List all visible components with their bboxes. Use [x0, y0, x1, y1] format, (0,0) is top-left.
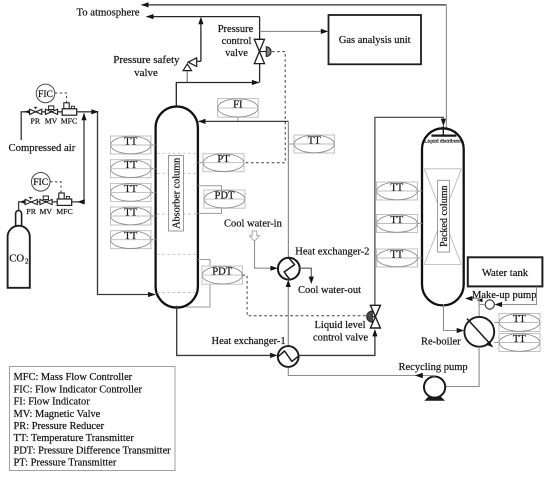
instrument TT2 (absorber) — [111, 160, 156, 178]
svg-text:PT: Pressure Transmitter: PT: Pressure Transmitter — [14, 458, 117, 469]
svg-text:Liquid level: Liquid level — [314, 320, 365, 331]
gas analysis unit box — [329, 15, 422, 64]
instrument TT1 (packed column) — [377, 182, 423, 200]
svg-text:MFC: MFC — [61, 116, 77, 125]
wire: lean amine riser (HX-2 to absorber feed line) — [287, 121, 289, 258]
instrument PT — [198, 154, 244, 172]
wire: CO2 feed line — [19, 113, 87, 211]
svg-text:TT: TT — [124, 231, 137, 242]
wire: re-boiler bottom to recycling pump — [437, 347, 479, 389]
svg-text:valve: valve — [225, 48, 248, 59]
svg-text:FIC: FIC — [33, 177, 48, 188]
svg-text:PT: PT — [217, 154, 230, 165]
svg-text:FI: FI — [233, 99, 243, 110]
wire: top vent line to atmosphere — [141, 2, 446, 129]
svg-text:Heat exchanger-1: Heat exchanger-1 — [212, 336, 286, 347]
svg-text:Pressure: Pressure — [218, 24, 254, 35]
instrument TT upper (re-boiler) — [494, 314, 540, 332]
svg-text:TT: Temperature Transmitter: TT: Temperature Transmitter — [14, 433, 135, 444]
component: structured packing (X pattern) — [424, 169, 461, 265]
absorber column vessel — [156, 107, 198, 308]
svg-text:Gas analysis unit: Gas analysis unit — [339, 35, 411, 46]
svg-text:Cool water-out: Cool water-out — [298, 285, 361, 296]
instrument FI — [218, 99, 259, 122]
svg-text:PR: Pressure Reducer: PR: Pressure Reducer — [14, 421, 105, 432]
svg-text:TT: TT — [124, 184, 137, 195]
wire: absorber overhead line — [176, 80, 259, 107]
valve MV (air) — [45, 106, 57, 115]
svg-text:TT: TT — [390, 182, 403, 193]
svg-text:PDT: PDT — [212, 267, 233, 278]
svg-text:Compressed air: Compressed air — [9, 142, 76, 154]
svg-text:MFC: MFC — [56, 207, 72, 216]
wire: make-up line into packed column — [465, 296, 485, 305]
wire: recycling pump discharge to HX-1 — [288, 368, 433, 378]
CO2 cylinder — [8, 211, 30, 288]
wire: reboiler vapor return riser — [478, 299, 480, 318]
instrument TT1 (absorber) — [111, 136, 156, 154]
wire: cool water outlet — [300, 268, 314, 284]
svg-text:TT: TT — [124, 160, 137, 171]
valve PR (CO2) — [25, 198, 37, 205]
re-boiler — [464, 317, 494, 348]
svg-text:FIC: FIC — [38, 89, 53, 100]
liquid level control valve LCV — [367, 305, 381, 328]
svg-text:To atmosphere: To atmosphere — [76, 6, 139, 18]
packed column vessel — [422, 128, 464, 305]
legend box — [10, 367, 176, 471]
instrument FIC (air line) — [36, 84, 55, 103]
svg-text:TT: TT — [513, 334, 526, 345]
wire: second vent line to atmosphere — [146, 14, 260, 19]
svg-text:CO: CO — [9, 253, 24, 265]
pump: recycling pump — [424, 377, 445, 401]
wire: dashed tray levels inside absorber — [157, 153, 197, 292]
svg-text:MV: Magnetic Valve: MV: Magnetic Valve — [14, 409, 101, 420]
wire: cool water inlet with hollow arrow — [250, 231, 278, 271]
dashed control line: FIC to MFC (CO2) — [50, 182, 61, 195]
instrument TT lower (re-boiler) — [494, 334, 540, 352]
instrument FIC (CO2 line) — [31, 173, 50, 192]
svg-text:TT: TT — [390, 249, 403, 260]
wire: safety valve riser — [198, 17, 203, 62]
svg-text:TT: TT — [390, 215, 403, 226]
svg-text:control valve: control valve — [313, 333, 368, 344]
svg-text:TT: TT — [124, 207, 137, 218]
instrument TT (lean amine line) — [288, 135, 334, 153]
svg-text:Re-boiler: Re-boiler — [421, 337, 461, 348]
node: packed column label — [438, 180, 450, 252]
svg-text:Heat exchanger-2: Heat exchanger-2 — [295, 246, 369, 257]
svg-text:FIC: Flow Indicator Controller: FIC: Flow Indicator Controller — [14, 384, 143, 395]
instrument TT3 (absorber) — [111, 183, 156, 201]
svg-text:FI: Flow Indicator: FI: Flow Indicator — [14, 397, 91, 408]
wire: packed column bottom to re-boiler — [444, 305, 465, 334]
instrument TT5 (absorber) — [111, 231, 156, 249]
water tank box — [468, 257, 543, 286]
svg-text:control: control — [222, 36, 252, 47]
pressure control valve PCV — [254, 39, 271, 63]
svg-text:MV: MV — [45, 116, 58, 125]
svg-text:Recycling pump: Recycling pump — [399, 362, 468, 373]
wire: rich amine from absorber bottom to HX-1 — [177, 306, 278, 358]
svg-text:Water tank: Water tank — [482, 267, 529, 279]
instrument PDT lower — [186, 260, 243, 308]
wire: water tank to make-up pump — [495, 287, 537, 307]
heat exchanger U1 (HX-1) — [278, 346, 299, 367]
wire: pressure control valve vertical line — [259, 17, 261, 83]
dashed control line: FIC to MFC (air) — [55, 93, 67, 103]
instrument PDT upper — [198, 186, 245, 214]
component MFC (air) — [62, 103, 76, 115]
svg-text:PR: PR — [31, 116, 41, 125]
wire: compressed air supply line — [21, 109, 155, 297]
wire: HX-1 outlet to liquid level control valve — [299, 329, 378, 355]
svg-text:MV: MV — [40, 207, 53, 216]
svg-text:valve: valve — [134, 67, 158, 79]
pressure safety valve PSV — [183, 58, 201, 83]
dashed control line: PDT lower to liquid level control valve — [243, 275, 366, 316]
component MFC (CO2) — [57, 193, 71, 205]
svg-text:MFC: Mass Flow Controller: MFC: Mass Flow Controller — [14, 372, 133, 383]
wire: valve outlet riser to packed column top — [375, 117, 446, 305]
svg-text:Absorber column: Absorber column — [172, 158, 183, 229]
svg-text:2: 2 — [25, 258, 29, 266]
pump: make-up pump — [485, 300, 494, 309]
wire: lean amine line HX-1 to HX-2 — [286, 280, 291, 347]
wire: line to gas analysis unit — [260, 29, 329, 34]
valve MV (CO2) — [40, 196, 52, 205]
component: liquid distributor — [424, 126, 462, 144]
svg-text:TT: TT — [513, 314, 526, 325]
svg-text:Liquid distributor: Liquid distributor — [424, 138, 462, 144]
svg-text:PR: PR — [26, 207, 36, 216]
svg-text:Pressure safety: Pressure safety — [113, 54, 180, 66]
svg-text:PDT: PDT — [214, 191, 235, 202]
instrument TT3 (packed column) — [377, 249, 423, 267]
node: absorber column label — [169, 156, 184, 232]
svg-text:PDT: Pressure Difference Trans: PDT: Pressure Difference Transmitter — [14, 445, 172, 456]
valve PR (air) — [30, 107, 42, 114]
instrument TT4 (absorber) — [111, 207, 156, 225]
heat exchanger U2 (HX-2) — [278, 258, 300, 280]
svg-text:TT: TT — [124, 136, 137, 147]
wire: lean amine line into absorber top — [198, 119, 288, 124]
svg-text:Packed column: Packed column — [439, 186, 450, 247]
svg-text:Cool water-in: Cool water-in — [224, 219, 283, 230]
dashed control line: PT to pressure control valve — [244, 52, 285, 163]
instrument TT2 (packed column) — [377, 215, 423, 233]
svg-text:TT: TT — [308, 135, 321, 146]
